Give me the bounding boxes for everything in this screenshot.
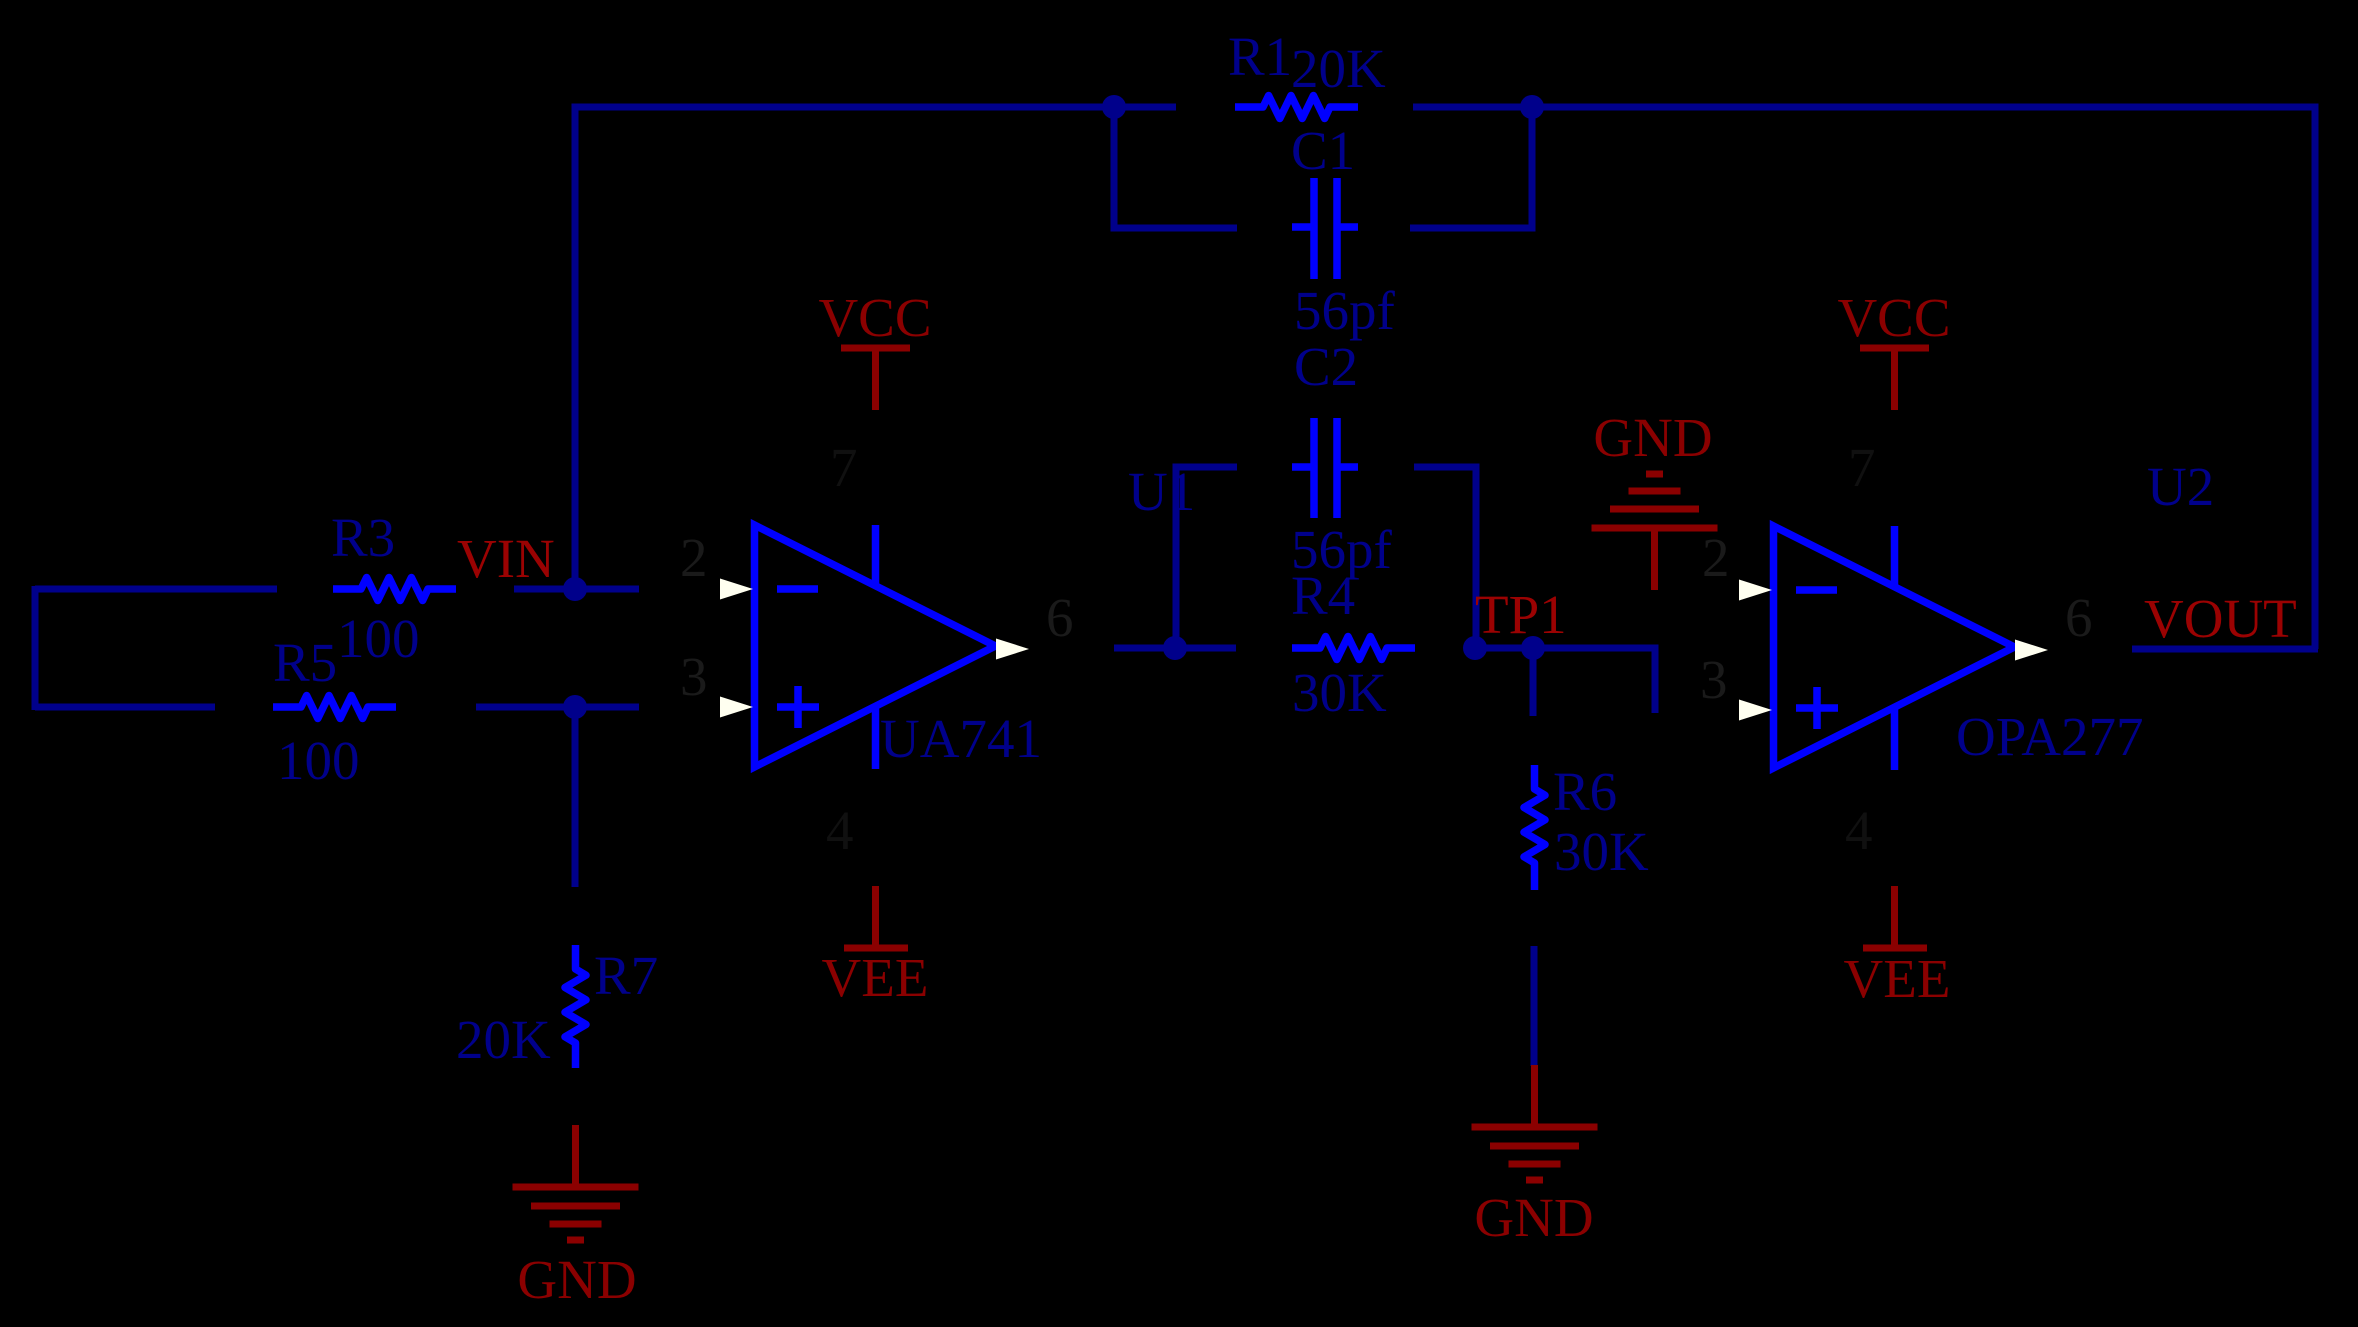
wire c2 right L bbox=[1414, 467, 1476, 648]
wire r5 row right bbox=[476, 704, 639, 711]
svg-text:4: 4 bbox=[826, 800, 854, 861]
resistor R4 bbox=[1292, 637, 1415, 660]
wire c1 right drop bbox=[1410, 107, 1532, 228]
wire c2 left L bbox=[1176, 467, 1237, 648]
svg-text:20K: 20K bbox=[456, 1009, 551, 1070]
svg-text:R3: R3 bbox=[331, 507, 395, 568]
wire r6 bottom link bbox=[1531, 946, 1538, 1066]
node U1 output junction bbox=[1163, 636, 1187, 660]
resistor R7 bbox=[565, 945, 586, 1068]
svg-text:C2: C2 bbox=[1294, 336, 1358, 397]
wire top feedback left bbox=[575, 107, 1176, 589]
svg-text:VEE: VEE bbox=[1844, 948, 1951, 1009]
svg-text:7: 7 bbox=[1848, 437, 1876, 498]
svg-text:2: 2 bbox=[1702, 527, 1730, 588]
svg-text:U2: U2 bbox=[2147, 456, 2214, 517]
U2 pin3 arrow bbox=[1739, 700, 1772, 721]
resistor R6 bbox=[1524, 765, 1545, 890]
svg-text:VEE: VEE bbox=[822, 947, 929, 1008]
svg-text:R7: R7 bbox=[594, 945, 658, 1006]
svg-text:100: 100 bbox=[337, 608, 420, 669]
svg-text:100: 100 bbox=[277, 730, 360, 791]
wire tp1 row bbox=[1466, 648, 1655, 713]
svg-text:R5: R5 bbox=[273, 632, 337, 693]
VCC symbol U1 bbox=[841, 348, 910, 410]
POWER SYMBOLS (dark red) bbox=[513, 348, 1930, 1240]
wire r5 row left bbox=[35, 704, 215, 711]
node VIN junction bbox=[563, 577, 587, 601]
wire r6 top link bbox=[1530, 648, 1537, 716]
svg-text:VCC: VCC bbox=[1837, 287, 1950, 348]
ground symbol bottom-middle bbox=[1472, 1065, 1598, 1180]
wire r7 link bbox=[572, 707, 579, 887]
svg-text:3: 3 bbox=[680, 646, 708, 707]
VEE symbol U1 bbox=[844, 886, 908, 948]
svg-text:VIN: VIN bbox=[457, 528, 555, 589]
svg-text:20K: 20K bbox=[1291, 38, 1386, 99]
svg-text:6: 6 bbox=[2065, 587, 2093, 648]
svg-text:UA741: UA741 bbox=[880, 708, 1042, 769]
wire vout bbox=[2132, 646, 2318, 653]
node top-right junction bbox=[1520, 95, 1544, 119]
svg-text:VCC: VCC bbox=[818, 287, 931, 348]
op-amp U1 triangle bbox=[755, 525, 996, 769]
INPUT/OUTPUT ARROWS (ivory) bbox=[720, 579, 2048, 721]
wire top feedback right bbox=[1413, 107, 2315, 649]
svg-text:3: 3 bbox=[1700, 649, 1728, 710]
VCC symbol U2 bbox=[1860, 348, 1929, 410]
capacitor C2 bbox=[1292, 418, 1358, 518]
svg-text:GND: GND bbox=[1593, 407, 1712, 468]
svg-text:R4: R4 bbox=[1291, 565, 1355, 626]
wire vin row right bbox=[514, 586, 639, 593]
COMPONENT BODIES (bright blue) bbox=[273, 96, 2015, 1069]
svg-text:R1: R1 bbox=[1228, 26, 1292, 87]
svg-text:GND: GND bbox=[517, 1249, 636, 1310]
svg-text:R6: R6 bbox=[1553, 761, 1617, 822]
resistor R3 bbox=[333, 578, 456, 601]
ground symbol at U2 pin2 (flipped) bbox=[1592, 474, 1718, 590]
U1 output arrow bbox=[996, 639, 1029, 660]
svg-text:4: 4 bbox=[1845, 800, 1873, 861]
svg-text:TP1: TP1 bbox=[1475, 584, 1567, 645]
svg-text:7: 7 bbox=[830, 437, 858, 498]
U1 pin3 arrow bbox=[720, 697, 753, 718]
node top-left junction bbox=[1102, 95, 1126, 119]
svg-text:VOUT: VOUT bbox=[2144, 588, 2297, 649]
resistor R5 bbox=[273, 696, 396, 719]
resistor R1 bbox=[1235, 96, 1358, 119]
svg-text:OPA277: OPA277 bbox=[1956, 706, 2143, 767]
U1 pin2 arrow bbox=[720, 579, 753, 600]
JUNCTION DOTS bbox=[563, 95, 1545, 719]
svg-text:C1: C1 bbox=[1291, 120, 1355, 181]
U2 pin2 arrow bbox=[1739, 580, 1772, 601]
wire left loop vertical bbox=[32, 586, 39, 710]
svg-text:56pf: 56pf bbox=[1294, 280, 1396, 341]
wire u1 out bbox=[1114, 645, 1236, 652]
svg-text:6: 6 bbox=[1046, 587, 1074, 648]
wire vin row left bbox=[35, 586, 277, 593]
svg-text:30K: 30K bbox=[1292, 662, 1387, 723]
wire c1 left drop bbox=[1114, 107, 1237, 228]
svg-text:30K: 30K bbox=[1554, 821, 1649, 882]
capacitor C1 bbox=[1292, 178, 1358, 279]
svg-text:2: 2 bbox=[680, 527, 708, 588]
node pin3 junction bbox=[563, 695, 587, 719]
U2 output arrow bbox=[2015, 640, 2048, 661]
svg-text:GND: GND bbox=[1474, 1187, 1593, 1248]
node TP1 right junction bbox=[1521, 636, 1545, 660]
VEE symbol U2 bbox=[1863, 886, 1927, 948]
op-amp U2 triangle bbox=[1774, 526, 2015, 770]
ground symbol bottom-left bbox=[513, 1125, 639, 1240]
node TP1 left junction bbox=[1463, 636, 1487, 660]
svg-text:U1: U1 bbox=[1128, 461, 1195, 522]
